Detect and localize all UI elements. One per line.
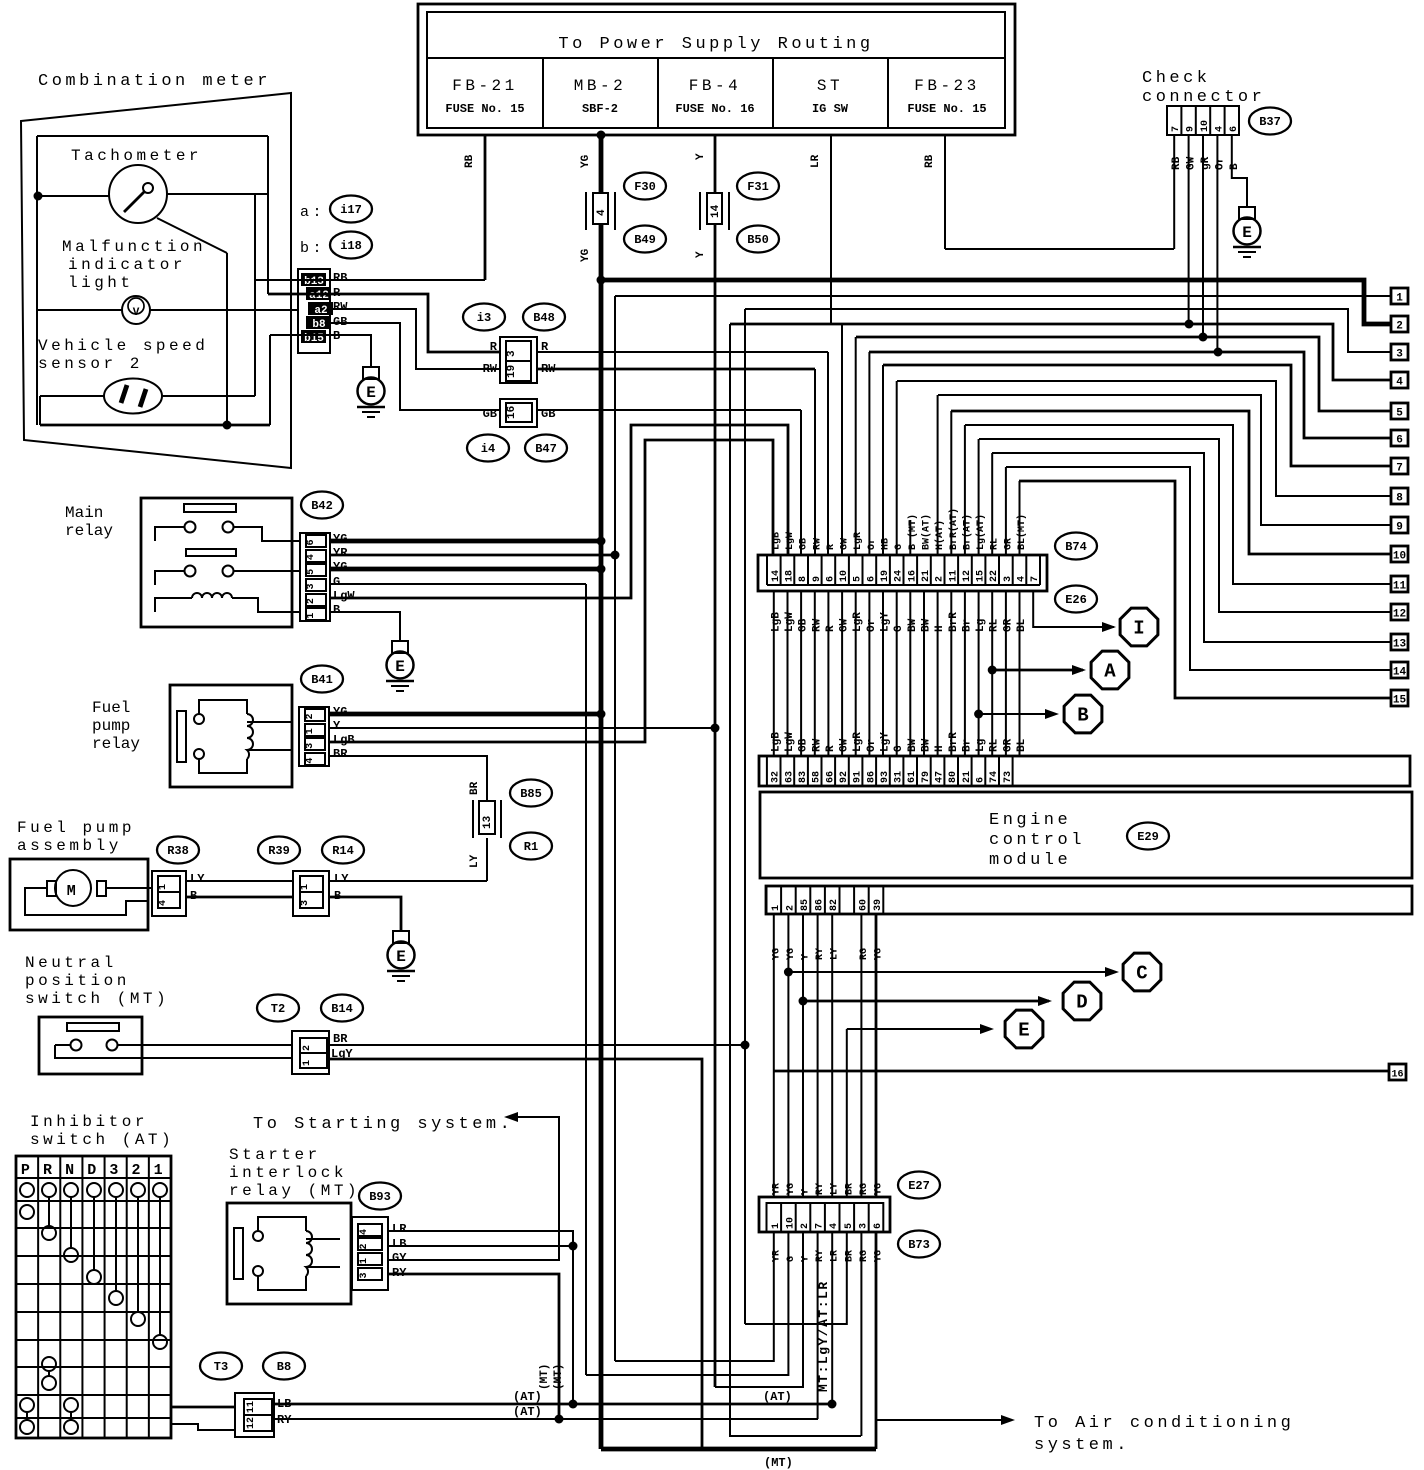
svg-text:14: 14	[710, 204, 722, 218]
svg-text:pump: pump	[92, 717, 130, 735]
wire LR B93 pin4	[388, 1231, 573, 1404]
svg-text:E: E	[1018, 1020, 1029, 1042]
terminal 9 line	[938, 395, 1391, 525]
svg-text:Lg(AT): Lg(AT)	[975, 514, 987, 550]
wire YG from MB-2 (main bus)	[599, 135, 604, 1449]
starter relay connector pins	[352, 1217, 388, 1290]
svg-text:YG: YG	[786, 948, 797, 960]
svg-text:14: 14	[771, 570, 782, 582]
wire BR T2	[329, 1044, 745, 1046]
svg-text:Y: Y	[695, 153, 707, 160]
svg-text:32: 32	[771, 771, 782, 783]
terminal 8 line	[897, 381, 1391, 496]
svg-text:82: 82	[829, 899, 840, 911]
svg-text:V: V	[133, 307, 140, 319]
svg-text:2: 2	[800, 1223, 811, 1229]
riser B74 pin 14	[950, 411, 952, 556]
terminal 14 line	[1006, 467, 1391, 670]
svg-text:Y: Y	[801, 1189, 812, 1195]
svg-text:B73: B73	[908, 1238, 930, 1252]
wire Y from FB-4	[714, 135, 717, 1387]
svg-text:66: 66	[825, 771, 836, 783]
svg-text:gR: gR	[1200, 156, 1212, 170]
svg-text:Or: Or	[1214, 157, 1226, 170]
svg-text:B: B	[1077, 705, 1088, 727]
svg-text:H: H	[934, 625, 946, 632]
ground E (fuel pump)	[393, 931, 409, 943]
to starting system arrow	[504, 1112, 518, 1122]
wire LgY T2	[329, 1059, 702, 1449]
svg-text:E: E	[395, 658, 405, 676]
svg-text:2: 2	[132, 1162, 145, 1179]
svg-text:YR: YR	[333, 546, 348, 560]
svg-text:B50: B50	[747, 233, 769, 247]
svg-text:BR: BR	[333, 1032, 348, 1046]
svg-text:sensor 2: sensor 2	[38, 355, 143, 373]
svg-text:LY: LY	[190, 872, 205, 886]
svg-text:3: 3	[506, 350, 518, 357]
svg-text:Main: Main	[65, 504, 103, 522]
svg-text:1: 1	[300, 884, 311, 890]
svg-text:B85: B85	[520, 787, 542, 801]
svg-text:b8: b8	[312, 319, 326, 331]
svg-text:3: 3	[306, 583, 317, 589]
svg-text:D: D	[87, 1162, 100, 1179]
terminal 5 line	[856, 337, 1391, 411]
svg-text:LgW: LgW	[784, 612, 796, 632]
svg-text:YG: YG	[580, 154, 592, 168]
svg-text:73: 73	[1003, 771, 1014, 783]
svg-text:LgW: LgW	[785, 532, 796, 550]
wires inhibitor to T3	[171, 1406, 235, 1409]
svg-text:3: 3	[858, 1223, 869, 1229]
svg-text:i17: i17	[340, 203, 362, 217]
svg-text:Br: Br	[961, 619, 973, 632]
svg-text:Vehicle speed: Vehicle speed	[38, 337, 208, 355]
svg-text:Lg: Lg	[975, 739, 987, 752]
connector ref B49	[624, 226, 666, 253]
svg-text:16: 16	[907, 570, 918, 582]
svg-text:83: 83	[798, 771, 809, 783]
ground E (meter)	[363, 367, 379, 379]
svg-text:6: 6	[976, 777, 987, 783]
svg-text:93: 93	[880, 771, 891, 783]
svg-text:11: 11	[1393, 581, 1407, 593]
engine control module box	[760, 792, 1412, 878]
wire B R14 to ground	[329, 897, 401, 931]
svg-text:GY: GY	[392, 1251, 407, 1265]
wire RB from FB-21	[484, 135, 487, 280]
svg-text:LR: LR	[810, 154, 822, 168]
svg-text:RW: RW	[811, 738, 823, 752]
svg-text:Starter: Starter	[229, 1146, 321, 1164]
svg-text:RB: RB	[924, 154, 936, 168]
svg-text:4: 4	[596, 209, 608, 216]
connector ref F31	[737, 173, 779, 200]
main relay box	[141, 498, 292, 627]
svg-text:4: 4	[1396, 377, 1403, 389]
wire Y-85 to D	[799, 997, 808, 1006]
svg-text:E: E	[1242, 224, 1252, 242]
svg-text:3: 3	[300, 900, 311, 906]
svg-text:31: 31	[894, 771, 905, 783]
svg-text:6: 6	[1229, 126, 1240, 132]
svg-text:7: 7	[1396, 463, 1403, 475]
svg-text:1: 1	[154, 1162, 167, 1179]
wire GB to B74 pin3	[537, 409, 801, 411]
wire R to B74 pin5	[537, 351, 828, 353]
svg-text:LgB: LgB	[771, 532, 782, 550]
svg-text:R39: R39	[268, 844, 290, 858]
connector ref B47	[525, 435, 567, 462]
svg-text:a12: a12	[309, 290, 329, 302]
svg-text:BL(MT): BL(MT)	[1016, 514, 1028, 550]
wire YG pin6 to AC and MT rail	[875, 1232, 878, 1449]
svg-text:LgB: LgB	[333, 733, 355, 747]
riser x745 terminal3	[744, 309, 746, 1324]
svg-text:interlock: interlock	[229, 1164, 347, 1182]
svg-text:R: R	[43, 1162, 56, 1179]
wire Lg to B	[974, 710, 983, 719]
svg-text:BW: BW	[907, 618, 919, 632]
svg-text:Fuel pump: Fuel pump	[17, 819, 135, 837]
svg-text:LgR: LgR	[853, 532, 864, 550]
connector T3/B8	[200, 1353, 242, 1380]
svg-text:14: 14	[1393, 667, 1407, 679]
svg-text:LgR: LgR	[852, 732, 864, 752]
wire to E octagon	[847, 1028, 991, 1030]
svg-text:i3: i3	[477, 311, 491, 325]
svg-text:60: 60	[858, 899, 869, 911]
svg-text:4: 4	[306, 554, 317, 560]
svg-text:RW: RW	[333, 300, 348, 314]
svg-text:74: 74	[989, 771, 1000, 783]
svg-text:system.: system.	[1034, 1436, 1130, 1455]
svg-text:T3: T3	[214, 1360, 228, 1374]
svg-text:B37: B37	[1259, 115, 1281, 129]
svg-text:85: 85	[800, 899, 811, 911]
svg-text:3: 3	[359, 1272, 370, 1278]
svg-text:I: I	[1133, 618, 1144, 640]
svg-text:7: 7	[1171, 126, 1182, 132]
svg-text:module: module	[989, 851, 1071, 870]
svg-text:5: 5	[844, 1223, 855, 1229]
svg-text:2: 2	[935, 576, 946, 582]
svg-text:B: B	[333, 603, 340, 617]
svg-text:Malfunction: Malfunction	[62, 238, 206, 256]
svg-text:86: 86	[866, 771, 877, 783]
wire YR main relay pin4	[330, 554, 615, 557]
check connector wires	[1173, 135, 1175, 249]
svg-text:8: 8	[798, 576, 809, 582]
svg-text:E26: E26	[1065, 593, 1087, 607]
wire LR from ST	[830, 135, 832, 324]
svg-text:Or: Or	[866, 619, 878, 632]
svg-text:R38: R38	[167, 844, 189, 858]
svg-text:GB: GB	[799, 538, 810, 550]
svg-text:E: E	[366, 384, 376, 402]
svg-text:LgY: LgY	[880, 732, 892, 752]
svg-text:6: 6	[306, 539, 317, 545]
svg-text:B8: B8	[277, 1360, 291, 1374]
octagon D	[1063, 982, 1101, 1020]
wire BR to E octagon	[846, 1029, 848, 1197]
svg-text:YG: YG	[786, 1183, 797, 1195]
svg-text:BrR(AT): BrR(AT)	[948, 508, 960, 550]
octagon A	[1091, 651, 1129, 689]
svg-text:79: 79	[921, 771, 932, 783]
connector ref i3	[463, 304, 505, 331]
svg-text:b:: b:	[300, 240, 325, 257]
svg-text:relay: relay	[92, 735, 140, 753]
svg-text:(MT): (MT)	[553, 1364, 565, 1390]
wire B meter to ground	[270, 335, 371, 367]
connector ref B41	[301, 666, 343, 693]
connector ref E29	[1127, 823, 1169, 850]
svg-text:RL: RL	[989, 618, 1001, 632]
connector ref E27	[898, 1172, 940, 1199]
svg-text:86: 86	[815, 899, 826, 911]
svg-text:To Air conditioning: To Air conditioning	[1034, 1414, 1294, 1433]
terminal 11 line	[965, 425, 1391, 584]
wire B R38-R39	[186, 896, 293, 899]
svg-text:3: 3	[1396, 349, 1403, 361]
svg-text:13: 13	[482, 815, 494, 829]
svg-text:6: 6	[873, 1223, 884, 1229]
power supply routing box	[418, 4, 1015, 135]
svg-text:R1: R1	[524, 840, 538, 854]
svg-text:M: M	[67, 883, 80, 900]
svg-text:(AT): (AT)	[763, 1390, 792, 1404]
wire RB from FB-23	[944, 135, 946, 249]
octagon I	[1120, 608, 1158, 646]
svg-text:24: 24	[894, 570, 905, 582]
svg-text:YG: YG	[874, 948, 885, 960]
svg-text:R: R	[825, 625, 837, 632]
ground E (check connector)	[1239, 207, 1255, 219]
svg-text:relay (MT): relay (MT)	[229, 1182, 360, 1200]
svg-text:position: position	[25, 972, 130, 990]
svg-text:F30: F30	[634, 180, 656, 194]
svg-text:RG: RG	[859, 948, 870, 960]
connector ref F30	[624, 173, 666, 200]
wire BL(MT) to I	[1033, 591, 1114, 627]
svg-text:B41: B41	[311, 673, 333, 687]
wire LgW main relay pin2 to B74 pin2	[330, 425, 788, 598]
svg-text:19: 19	[880, 570, 891, 582]
svg-text:b13: b13	[304, 276, 324, 288]
svg-text:switch (AT): switch (AT)	[30, 1131, 174, 1149]
svg-text:Y: Y	[695, 251, 707, 258]
svg-text:6: 6	[866, 576, 877, 582]
joint connector B85 13	[472, 800, 474, 838]
svg-text:12: 12	[246, 1417, 257, 1429]
fuel pump relay box	[170, 685, 292, 787]
svg-text:9: 9	[1186, 126, 1197, 132]
octagon B	[1064, 695, 1102, 733]
combination meter outline	[21, 93, 291, 468]
svg-text:6: 6	[825, 576, 836, 582]
connector ref B42	[301, 492, 343, 519]
svg-text:12: 12	[1393, 609, 1406, 621]
svg-text:92: 92	[839, 771, 850, 783]
svg-text:BrR: BrR	[948, 612, 960, 632]
terminal 13 line	[992, 453, 1391, 642]
svg-text:BR: BR	[844, 1183, 855, 1195]
riser B74 pin 19	[1019, 481, 1021, 556]
terminal 12 line	[979, 439, 1391, 612]
svg-text:LY: LY	[830, 948, 841, 960]
svg-text:N: N	[65, 1162, 78, 1179]
wire RB meter-FB21	[255, 279, 485, 281]
svg-text:switch (MT): switch (MT)	[25, 990, 169, 1008]
svg-text:15: 15	[976, 570, 987, 582]
svg-text:GB: GB	[483, 407, 497, 421]
svg-text:11: 11	[948, 570, 959, 582]
svg-text:10: 10	[839, 570, 850, 582]
B73 pin wires below	[615, 1232, 774, 1361]
svg-text:LY: LY	[830, 1183, 841, 1195]
meter bottom bus	[40, 424, 270, 427]
svg-text:LgB: LgB	[770, 612, 782, 632]
wire YG fuel pump relay	[329, 712, 601, 717]
svg-text:RY: RY	[815, 1183, 826, 1195]
svg-text:LgW: LgW	[333, 589, 355, 603]
svg-text:(AT): (AT)	[513, 1390, 542, 1404]
svg-text:H: H	[934, 745, 946, 752]
joint connector 3/19	[500, 337, 537, 383]
svg-text:H(AT): H(AT)	[934, 520, 946, 550]
svg-text:BW(AT): BW(AT)	[921, 514, 933, 550]
wire Y fuel pump relay	[329, 727, 715, 729]
svg-text:FUSE No. 16: FUSE No. 16	[675, 102, 754, 116]
svg-text:F31: F31	[747, 180, 769, 194]
svg-text:T2: T2	[271, 1002, 285, 1016]
svg-text:MB-2: MB-2	[574, 77, 626, 95]
svg-text:GR: GR	[1002, 618, 1014, 632]
svg-text:connector: connector	[1142, 88, 1265, 107]
svg-text:91: 91	[853, 771, 864, 783]
to air conditioning arrow	[876, 1419, 1012, 1421]
svg-text:3: 3	[109, 1162, 122, 1179]
svg-text:(MT): (MT)	[539, 1364, 551, 1390]
terminal 4 line	[730, 324, 1391, 380]
svg-text:1: 1	[771, 905, 782, 911]
MT rail	[601, 1447, 876, 1452]
terminal 1 line	[615, 295, 1391, 297]
svg-text:R: R	[826, 544, 837, 550]
connector ref E26 oval	[1055, 586, 1097, 613]
ground E (main relay)	[392, 641, 408, 653]
svg-text:E: E	[396, 948, 406, 966]
svg-text:GW: GW	[839, 738, 851, 752]
svg-text:21: 21	[921, 570, 932, 582]
svg-text:2: 2	[1396, 321, 1403, 333]
svg-text:G: G	[893, 745, 905, 752]
svg-text:light: light	[68, 274, 134, 292]
wire RY B93 pin3	[388, 1274, 559, 1419]
wire YG-2 to C	[784, 968, 793, 977]
svg-text:9: 9	[1396, 522, 1403, 534]
svg-text:G: G	[893, 625, 905, 632]
fuel pump relay connector pins	[299, 707, 329, 766]
ECM lower connector row	[766, 886, 1412, 914]
svg-text:RB: RB	[464, 154, 476, 168]
svg-text:BR: BR	[333, 747, 348, 761]
connector ref i4	[467, 435, 509, 462]
svg-text:1: 1	[305, 728, 316, 734]
svg-text:R14: R14	[332, 844, 354, 858]
terminal 2 line	[601, 280, 1391, 324]
svg-text:4: 4	[829, 1223, 840, 1229]
svg-text:LgR: LgR	[852, 612, 864, 632]
svg-text:BW: BW	[921, 618, 933, 632]
riser B74 pin 16	[978, 439, 980, 556]
riser B74 pin 8	[868, 352, 870, 556]
svg-text:1: 1	[359, 1258, 370, 1264]
svg-text:LgB: LgB	[770, 732, 782, 752]
svg-text:indicator: indicator	[68, 256, 186, 274]
svg-text:B74: B74	[1065, 540, 1087, 554]
riser x615 terminal1	[614, 296, 616, 1361]
svg-text:4: 4	[158, 900, 169, 906]
svg-text:A: A	[1104, 661, 1116, 683]
fuse F31	[699, 192, 701, 230]
svg-text:RB: RB	[1171, 156, 1183, 170]
svg-text:R: R	[825, 745, 837, 752]
svg-text:10: 10	[1393, 551, 1406, 563]
svg-text:RG: RG	[859, 1183, 870, 1195]
svg-text:19: 19	[506, 365, 518, 378]
svg-text:i4: i4	[481, 442, 495, 456]
connector ref R1	[510, 833, 552, 860]
svg-text:GB: GB	[798, 618, 810, 632]
svg-text:15: 15	[1393, 695, 1407, 707]
svg-text:IG SW: IG SW	[812, 102, 849, 116]
riser B74 pin 9	[882, 365, 884, 556]
svg-text:GW: GW	[840, 538, 851, 550]
svg-text:LR: LR	[392, 1222, 407, 1236]
svg-text:FB-4: FB-4	[689, 77, 741, 95]
svg-text:BW: BW	[907, 738, 919, 752]
svg-text:8: 8	[1396, 493, 1403, 505]
svg-text:Fuel: Fuel	[92, 699, 130, 717]
svg-text:B93: B93	[369, 1190, 391, 1204]
svg-text:BL: BL	[1016, 618, 1028, 632]
svg-text:1: 1	[1396, 293, 1403, 305]
terminal boxes 1-15	[1391, 288, 1408, 304]
svg-text:39: 39	[873, 899, 884, 911]
svg-text:Or: Or	[867, 538, 878, 550]
riser B74 pin 17	[991, 453, 993, 556]
wire LY B85 to R14	[486, 838, 488, 881]
svg-text:To Starting system.: To Starting system.	[253, 1115, 513, 1134]
wire B main relay pin1 to ground	[330, 612, 400, 641]
svg-text:LB: LB	[392, 1237, 406, 1251]
octagon C	[1123, 953, 1161, 991]
terminal box 16	[1389, 1064, 1406, 1080]
connector B74	[758, 555, 1047, 591]
svg-text:GW: GW	[839, 618, 851, 632]
svg-text:Tachometer: Tachometer	[71, 147, 202, 165]
svg-text:B: B	[1229, 163, 1241, 170]
svg-text:G: G	[333, 575, 340, 589]
svg-text:FUSE No. 15: FUSE No. 15	[445, 102, 524, 116]
connector ref B73	[898, 1231, 940, 1258]
svg-text:YG: YG	[580, 248, 592, 262]
terminal 6 line	[869, 352, 1391, 438]
svg-text:3: 3	[305, 743, 316, 749]
